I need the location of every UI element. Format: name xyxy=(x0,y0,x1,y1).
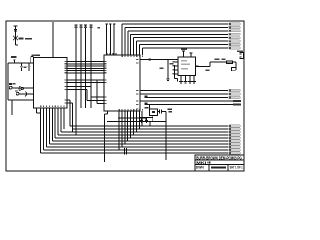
svg-text:MKI: MKI xyxy=(196,161,206,165)
svg-text:SHT 1 OF 1: SHT 1 OF 1 xyxy=(230,165,243,169)
svg-text:DWN: DWN xyxy=(196,166,205,170)
svg-text:BURR-BROWN DEM-PCM63 PG: BURR-BROWN DEM-PCM63 PG xyxy=(196,155,242,160)
